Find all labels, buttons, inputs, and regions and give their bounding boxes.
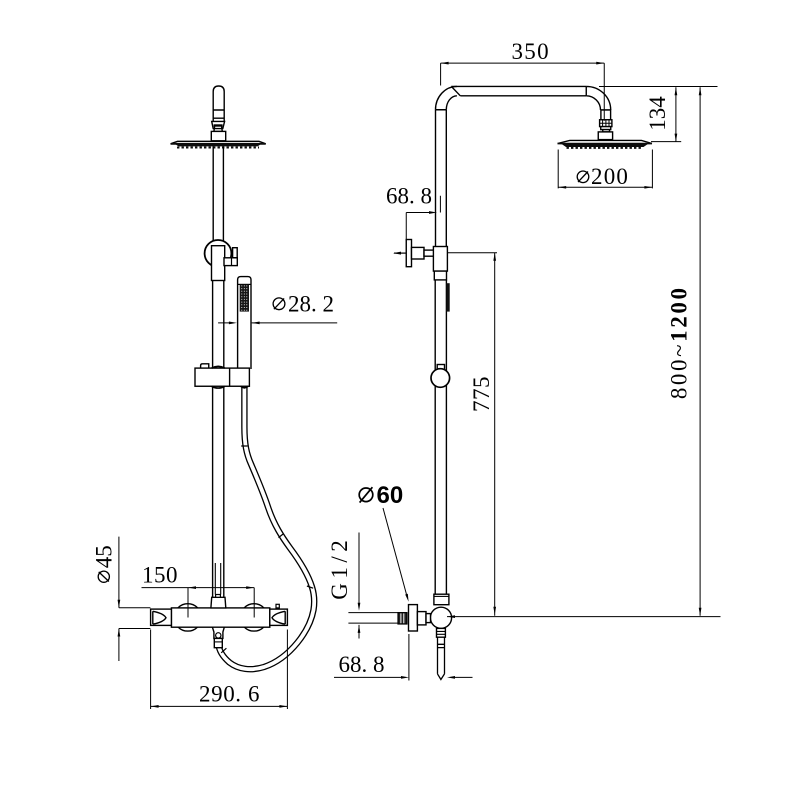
slider sleeve on pipe <box>212 246 225 281</box>
top pipe connector <box>211 597 226 608</box>
riser pipe upper (side) <box>436 110 447 247</box>
arrow d28.2 right <box>229 322 237 325</box>
shower head nozzle ticks <box>177 147 259 149</box>
left elbow <box>435 86 460 109</box>
label d60 <box>359 482 403 509</box>
mixer right end cap <box>270 609 288 625</box>
right elbow <box>586 86 610 110</box>
svg-text:45: 45 <box>92 545 117 568</box>
arrow 150 right <box>246 586 254 589</box>
bottom outlet fitting <box>212 627 224 638</box>
arrow 290.6 right <box>279 705 287 708</box>
arrow d28.2 left <box>252 322 260 325</box>
slider ring <box>205 240 232 267</box>
slide bracket <box>195 368 249 386</box>
dim line G1/2 <box>348 533 398 639</box>
head disc dark band <box>561 143 650 147</box>
arrow 150 left <box>188 586 196 589</box>
dim line 775 <box>448 253 498 616</box>
arrow 350 left <box>441 62 449 65</box>
top tube of shower arm (front view) <box>213 86 224 121</box>
leader d60 <box>383 508 407 596</box>
hand shower spray face <box>240 285 249 312</box>
wall inlet nut <box>398 613 407 624</box>
svg-text:800~1200: 800~1200 <box>666 285 691 399</box>
shower head dark face band <box>174 143 263 147</box>
bracket pipe bumps <box>212 366 249 388</box>
arrow 134 down <box>675 134 678 142</box>
connector notch <box>216 595 221 598</box>
arrow G1/2 down <box>358 603 361 611</box>
slider ring tab (side) <box>437 365 444 370</box>
dim line 290.6 <box>151 630 288 710</box>
label d28.2 <box>273 291 334 316</box>
top arm tube <box>451 86 586 95</box>
bracket block <box>412 247 425 259</box>
label d200 <box>577 164 629 189</box>
hose from hand shower to mixer outlet <box>218 380 314 669</box>
arrow baseline left <box>447 615 455 618</box>
outlet hose nut <box>214 638 222 647</box>
svg-text:68. 8: 68. 8 <box>386 184 432 209</box>
svg-text:G1/2: G1/2 <box>327 536 352 600</box>
arrow 800-1200 up <box>699 87 702 95</box>
arrow G1/2 up <box>358 625 361 633</box>
wall bracket plate (upper) <box>406 240 411 267</box>
svg-text:290. 6: 290. 6 <box>199 682 260 707</box>
column sleeve at bracket <box>433 247 447 272</box>
shower head disc (edge-on) <box>171 141 266 144</box>
svg-text:150: 150 <box>142 562 178 587</box>
head disc nozzle ticks <box>567 147 644 149</box>
arrowheads <box>118 62 702 708</box>
diverter button <box>276 604 279 608</box>
arrow 800-1200 down <box>699 608 702 616</box>
arrow 290.6 left <box>151 705 159 708</box>
head top collar <box>598 132 612 140</box>
head collar <box>211 131 225 140</box>
svg-text:200: 200 <box>591 164 629 189</box>
svg-text:28. 2: 28. 2 <box>288 291 334 316</box>
arrow 350 right <box>596 62 604 65</box>
flange-to-ball neck <box>417 612 426 625</box>
riser pipe (side, lower) <box>435 280 446 594</box>
dim line 350 <box>441 63 605 121</box>
arrow d60 leader <box>405 594 408 602</box>
valve sleeve (side) <box>434 594 449 605</box>
bracket neck <box>424 250 435 256</box>
svg-text:775: 775 <box>469 376 494 412</box>
mixer body <box>171 608 269 627</box>
head stem lower ring <box>601 127 611 130</box>
arrow 68.8bot left <box>447 676 455 679</box>
svg-text:134: 134 <box>645 96 670 131</box>
wall screw arrow <box>394 252 406 254</box>
mixer: left escutcheon circle <box>174 604 201 631</box>
dim line 150 <box>142 588 255 618</box>
slide bracket tab <box>201 364 209 368</box>
dim line 68.8 bottom <box>334 634 473 681</box>
hand shower seen edge-on <box>446 283 449 311</box>
hand shower holder block <box>224 258 237 266</box>
head stem piece <box>601 110 611 120</box>
arrow 68.8top right <box>429 211 437 214</box>
mixer left end cap <box>151 609 172 625</box>
arrow d200 left <box>558 186 566 189</box>
dim line d45 <box>119 537 150 661</box>
arrow 775 down <box>493 607 496 615</box>
dim line d28.2 <box>218 322 337 324</box>
lower riser pipe <box>213 386 224 597</box>
head disc (side) <box>558 140 653 143</box>
ball joint <box>212 121 225 128</box>
ball joint inner cone <box>214 125 222 131</box>
arrow 68.8bot right <box>401 676 409 679</box>
dim line d200 <box>558 150 652 189</box>
hand shower holder neck <box>233 248 238 258</box>
arrow d200 right <box>644 186 652 189</box>
mixer: right escutcheon circle <box>240 604 267 631</box>
svg-text:350: 350 <box>512 39 550 64</box>
dim line 68.8 top <box>406 196 440 241</box>
left handle cone <box>153 611 166 624</box>
dim line 800-1200 <box>447 87 721 617</box>
hand shower body <box>238 277 251 369</box>
arrow d45 up <box>118 629 121 637</box>
label d45 (rotated) <box>92 545 117 582</box>
outlet ball circle <box>216 633 221 638</box>
wall flange (lower) <box>409 605 418 631</box>
arrow 134 up <box>675 87 678 95</box>
dim line 134 <box>651 87 681 141</box>
right handle cone <box>272 611 285 624</box>
valve ball (side) <box>430 607 451 628</box>
tube joint lines <box>213 110 224 118</box>
outlet tube <box>438 637 445 679</box>
arrow d45 down <box>118 600 121 608</box>
head swivel nut <box>600 120 612 127</box>
middle riser pipe <box>213 281 224 369</box>
outlet nut below ball <box>437 628 446 637</box>
slider ring (side) <box>431 369 450 388</box>
arrow 775 up <box>493 253 496 261</box>
svg-text:60: 60 <box>377 482 404 509</box>
upper riser pipe <box>213 146 223 245</box>
svg-text:68. 8: 68. 8 <box>339 652 385 677</box>
head neck <box>603 130 610 132</box>
